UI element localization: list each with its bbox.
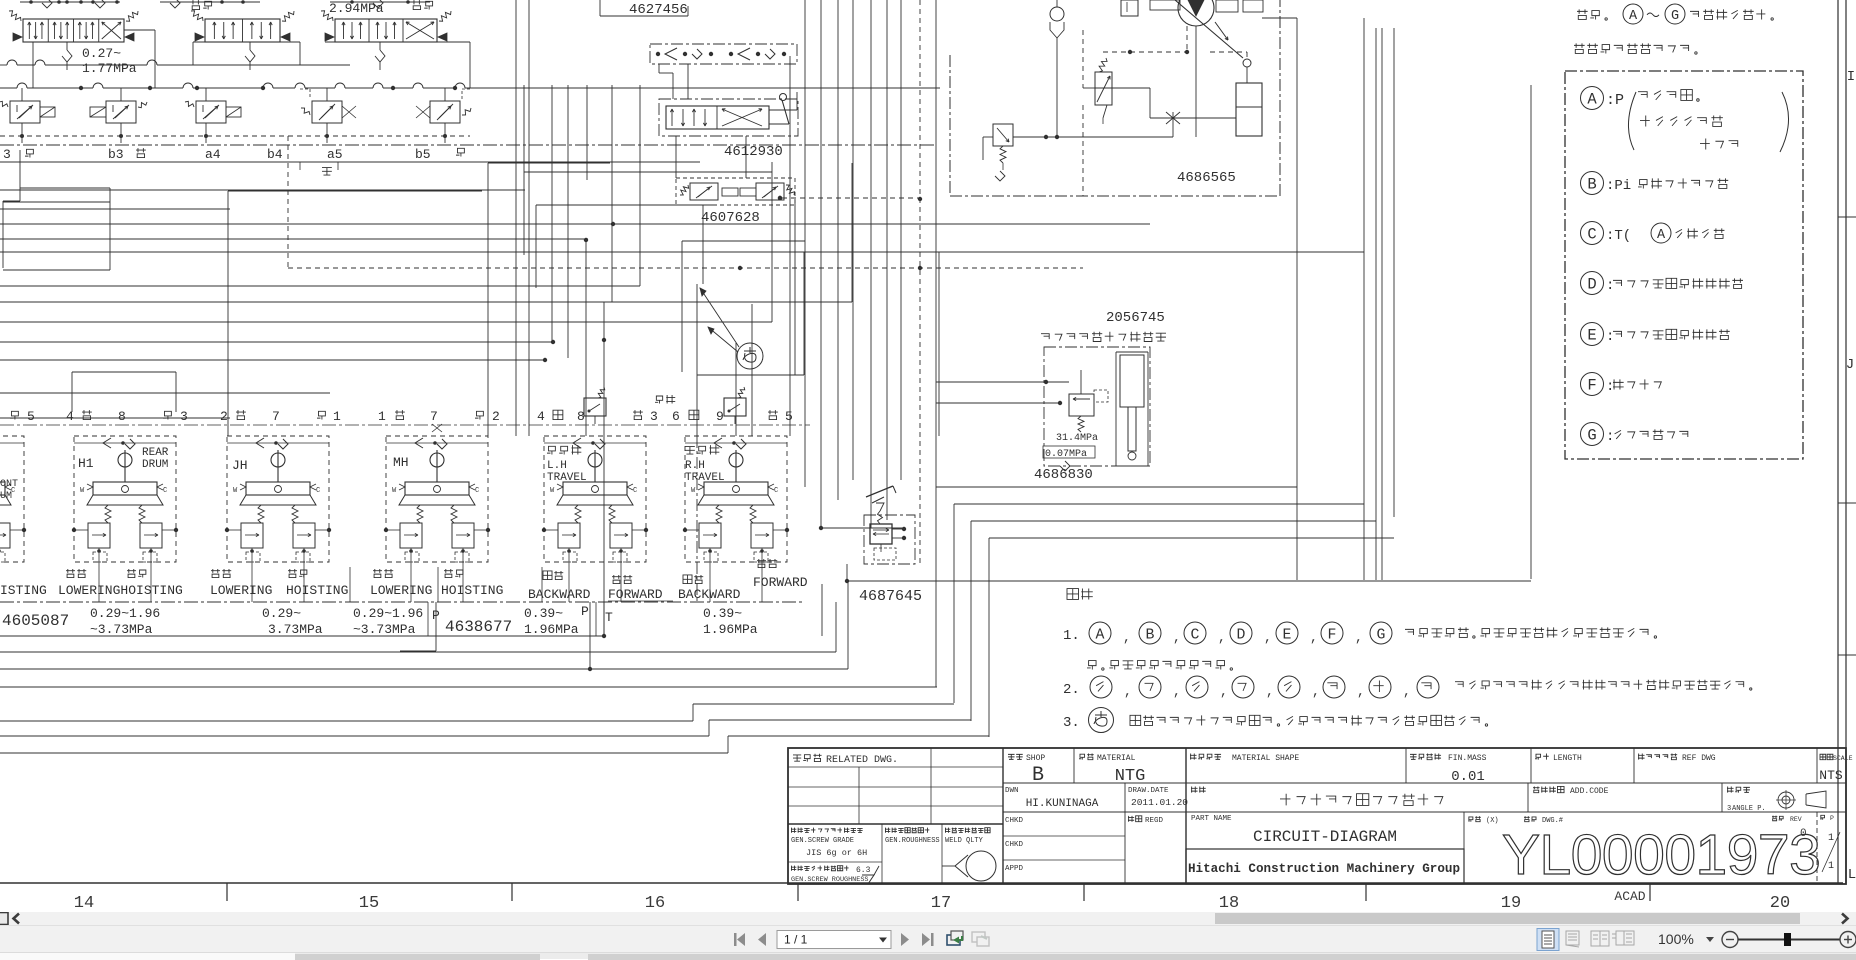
svg-text:~3.73MPa: ~3.73MPa [353,622,416,637]
svg-text:HI.KUNINAGA: HI.KUNINAGA [1026,798,1099,810]
svg-text:0: 0 [1800,828,1807,840]
svg-text:6.3: 6.3 [856,866,871,875]
svg-text:4605087: 4605087 [2,612,69,630]
svg-text::P: :P [1606,92,1624,109]
svg-text:6: 6 [672,409,680,424]
svg-text:C: C [774,487,778,495]
svg-text:BACKWARD: BACKWARD [678,587,741,602]
svg-text:,: , [1264,630,1272,645]
svg-text:JIS 6g or 6H: JIS 6g or 6H [806,848,867,858]
svg-text:ANGLE P.: ANGLE P. [1732,805,1766,813]
svg-text:2: 2 [220,409,228,424]
svg-text:Hitachi Construction Machinery: Hitachi Construction Machinery Group [1188,862,1460,876]
svg-text:,: , [1355,630,1363,645]
svg-text:31.4MPa: 31.4MPa [1056,433,1098,444]
svg-text:1: 1 [333,409,341,424]
svg-text::T(: :T( [1606,228,1631,244]
svg-text:4: 4 [537,409,545,424]
svg-text:8: 8 [118,409,126,424]
svg-text:C: C [633,487,637,495]
svg-text:GEN.ROUGHNESS: GEN.ROUGHNESS [885,837,940,845]
svg-text:7: 7 [272,409,280,424]
svg-text:1: 1 [378,409,386,424]
svg-text:REV: REV [1790,816,1802,823]
svg-text:ADD.CODE: ADD.CODE [1570,787,1609,796]
svg-text:C: C [1191,627,1200,643]
svg-text:HOISTING: HOISTING [286,583,348,598]
svg-text:MATERIAL: MATERIAL [1097,754,1136,763]
svg-text::: : [1606,429,1614,445]
svg-text:,: , [1123,630,1131,645]
svg-text:,: , [1173,630,1181,645]
svg-text:W: W [80,487,85,495]
svg-text:,: , [1357,684,1365,699]
svg-text:~3.73MPa: ~3.73MPa [90,622,153,637]
svg-text:W: W [233,487,238,495]
svg-text:,: , [1310,630,1318,645]
svg-text:G: G [1671,9,1679,24]
svg-text:FIN.MASS: FIN.MASS [1448,754,1487,763]
svg-text:REGD: REGD [1145,817,1164,825]
svg-text:0.39~: 0.39~ [524,606,563,621]
svg-text:WELD QLTY: WELD QLTY [945,837,984,845]
svg-text:REF DWG: REF DWG [1682,754,1716,763]
svg-text:3: 3 [650,409,658,424]
svg-text:1: 1 [1828,861,1834,872]
svg-text:MH: MH [393,455,409,470]
svg-text:B: B [1587,176,1596,194]
svg-text:GEN.SCREW GRADE: GEN.SCREW GRADE [791,837,854,845]
svg-text:1.96MPa: 1.96MPa [524,622,579,637]
svg-text:R.H: R.H [685,460,705,472]
svg-text:3.73MPa: 3.73MPa [268,622,323,637]
svg-text:a5: a5 [327,147,343,162]
svg-text:C: C [163,487,167,495]
svg-text:5: 5 [27,409,35,424]
svg-text:DRAW.DATE: DRAW.DATE [1128,787,1169,795]
svg-text:NTS: NTS [1819,768,1843,783]
svg-text:A: A [1629,9,1638,24]
svg-text:1.96MPa: 1.96MPa [703,622,758,637]
svg-text::Pi: :Pi [1606,178,1631,194]
svg-text:,: , [1220,684,1228,699]
svg-text:3: 3 [3,147,11,162]
svg-text:JH: JH [232,458,248,473]
svg-text:B: B [1032,764,1044,787]
svg-text:4687645: 4687645 [859,588,922,605]
svg-text:F: F [1587,377,1596,395]
svg-text:LOWERINGHOISTING: LOWERINGHOISTING [58,583,183,598]
svg-text:J: J [1846,357,1854,373]
svg-text:0.27~: 0.27~ [82,46,121,61]
svg-text:REAR: REAR [142,447,169,459]
svg-text:4686565: 4686565 [1177,170,1236,186]
svg-text:E: E [1283,627,1292,643]
svg-text:SCALE: SCALE [1833,755,1853,762]
svg-text:,: , [1403,684,1411,699]
svg-text:W: W [550,487,555,495]
svg-text:T: T [605,610,613,625]
svg-text:0.29~1.96: 0.29~1.96 [90,606,160,621]
svg-text:B: B [1146,627,1155,643]
svg-text:ISTING: ISTING [0,583,47,598]
svg-text:0.29~1.96: 0.29~1.96 [353,606,423,621]
svg-text:H1: H1 [78,456,94,471]
svg-text:LOWERING: LOWERING [210,583,272,598]
svg-text:100%: 100% [1658,931,1694,947]
svg-text:A: A [1096,627,1105,643]
svg-text:3: 3 [1727,805,1731,813]
svg-text:,: , [1218,630,1226,645]
svg-text:1 / 1: 1 / 1 [784,933,808,947]
svg-text:(X): (X) [1486,817,1499,825]
svg-text:C: C [475,487,479,495]
svg-text:UM: UM [0,491,12,502]
svg-text:4: 4 [66,409,74,424]
svg-text:W: W [392,487,397,495]
svg-text:2011.01.20: 2011.01.20 [1131,797,1188,808]
svg-text:2056745: 2056745 [1106,310,1165,326]
svg-text:FORWARD: FORWARD [753,575,808,590]
svg-text:,: , [1124,684,1132,699]
svg-text:TRAVEL: TRAVEL [685,472,725,484]
svg-text:NTG: NTG [1115,767,1146,786]
svg-text:b3: b3 [108,147,124,162]
svg-text:1.: 1. [1063,628,1080,644]
svg-text:W: W [691,487,696,495]
svg-text:4612930: 4612930 [724,144,783,160]
svg-text:4638677: 4638677 [445,618,512,636]
svg-text:ACAD: ACAD [1614,889,1645,904]
svg-text:RELATED DWG.: RELATED DWG. [826,755,898,766]
svg-text:F: F [1328,627,1337,643]
svg-text:I: I [1847,69,1855,85]
svg-text:0.39~: 0.39~ [703,606,742,621]
svg-text:3: 3 [180,409,188,424]
svg-text:MATERIAL SHAPE: MATERIAL SHAPE [1232,754,1299,763]
svg-text:C: C [1587,226,1596,244]
svg-text:PART NAME: PART NAME [1191,815,1232,823]
svg-text:A: A [1657,228,1666,243]
svg-text:1.77MPa: 1.77MPa [82,61,137,76]
svg-text:CIRCUIT-DIAGRAM: CIRCUIT-DIAGRAM [1253,828,1397,846]
svg-text:LOWERING: LOWERING [370,583,432,598]
svg-text:BACKWARD: BACKWARD [528,587,591,602]
svg-text:,: , [1312,684,1320,699]
svg-text:GEN.SCREW ROUGHNESS: GEN.SCREW ROUGHNESS [791,876,869,884]
svg-text:LENGTH: LENGTH [1553,754,1582,763]
svg-text:CHKD: CHKD [1005,841,1024,849]
svg-text:HOISTING: HOISTING [441,583,503,598]
svg-text:C: C [316,487,320,495]
svg-text:P: P [1830,815,1834,822]
svg-text:TRAVEL: TRAVEL [547,472,587,484]
svg-text:APPD: APPD [1005,865,1024,873]
svg-text:5: 5 [785,409,793,424]
svg-text:D: D [1237,627,1246,643]
svg-text:4686830: 4686830 [1034,467,1093,483]
svg-text:E: E [1587,327,1596,345]
svg-text:ONT: ONT [0,479,18,490]
svg-text:2: 2 [492,409,500,424]
svg-text:a4: a4 [205,147,221,162]
svg-text:P: P [581,604,589,619]
svg-text:2.: 2. [1063,682,1080,698]
svg-text:A: A [1587,91,1597,109]
svg-text:3.: 3. [1063,715,1080,731]
svg-text:G: G [1377,627,1386,643]
svg-text:YL00001973: YL00001973 [1502,823,1820,887]
svg-text:2.94MPa: 2.94MPa [329,1,384,16]
svg-text:DRUM: DRUM [142,459,168,471]
svg-text:CHKD: CHKD [1005,817,1024,825]
svg-text:0.29~: 0.29~ [262,606,301,621]
svg-text:9: 9 [716,409,724,424]
svg-text:,: , [1266,684,1274,699]
svg-text:FORWARD: FORWARD [608,587,663,602]
svg-text:SHOP: SHOP [1026,754,1045,763]
svg-text:8: 8 [577,409,585,424]
svg-text:1: 1 [1828,833,1834,844]
svg-text:0.07MPa: 0.07MPa [1045,449,1087,460]
svg-text:b4: b4 [267,147,283,162]
svg-text:G: G [1587,427,1596,445]
svg-text:L: L [1848,867,1856,883]
svg-text:7: 7 [430,409,438,424]
svg-text:b5: b5 [415,147,431,162]
svg-text:,: , [1173,684,1181,699]
svg-text:D: D [1587,276,1596,294]
svg-text:0.01: 0.01 [1451,769,1485,785]
svg-text:L.H: L.H [547,460,567,472]
svg-text:DWN: DWN [1005,787,1019,795]
